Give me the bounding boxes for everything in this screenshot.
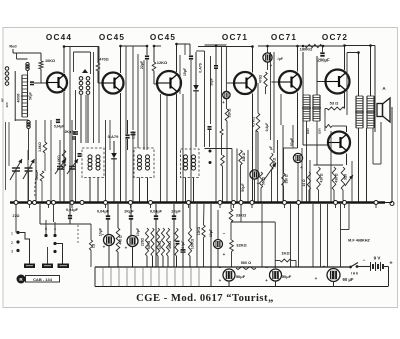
svg-text:0.A79: 0.A79 (199, 63, 203, 73)
capacitor 10μF elco a (104, 235, 115, 246)
wire v75 low2 (75, 136, 77, 202)
IF transformer can 2 (134, 148, 154, 178)
wire v60 top (59, 140, 61, 166)
svg-text:2KμF: 2KμF (171, 210, 181, 214)
svg-text:+: + (219, 278, 222, 283)
wire drop jog (40, 223, 91, 225)
resistor 1,8KΩ (43, 142, 47, 153)
resistor KR det (221, 155, 225, 166)
svg-text:470Ω: 470Ω (99, 58, 108, 62)
wire lower drop 9 (174, 267, 176, 287)
wire 1K left (275, 260, 280, 262)
battery 9V (364, 262, 389, 271)
svg-text:+: + (125, 246, 128, 251)
wire v73 loop (73, 52, 75, 72)
wire diode2 top (113, 141, 115, 153)
svg-text:0,4μF: 0,4μF (265, 123, 269, 132)
wire v227 low (226, 121, 228, 202)
wire h 222 (231, 221, 275, 223)
wire feedback right (322, 45, 345, 47)
wire v167 low (166, 94, 168, 202)
IF1 can coil b (96, 155, 100, 170)
wire Q3 emitter down (176, 94, 178, 202)
wire v127 top (127, 120, 129, 134)
transistor Q2 OC45 (102, 73, 124, 94)
wire v375 down (374, 46, 376, 133)
output transformer T3 secondary (366, 96, 375, 128)
wire v105 low (105, 120, 107, 202)
wire r col down4 (162, 256, 164, 267)
wire Q1 collector up (63, 47, 65, 74)
wire v241 low (240, 204, 242, 222)
svg-text:180KΩ: 180KΩ (300, 47, 314, 52)
transistor Q4 OC71 (233, 72, 256, 94)
IF2 can coil a (138, 155, 142, 170)
wire feedback left (258, 45, 305, 47)
wire Q7 emitter down (346, 154, 348, 166)
wire base Q2 (98, 82, 102, 84)
svg-text:1,8KΩ: 1,8KΩ (38, 142, 42, 152)
wire 33K to 32K (230, 222, 232, 240)
svg-text:0.A79: 0.A79 (108, 134, 119, 139)
svg-text:+: + (103, 245, 106, 250)
resistor 82KΩ b (239, 150, 242, 165)
oscillator feedback coil (27, 120, 30, 128)
coupling arrow to IF1 (82, 69, 88, 73)
wire v218 low (217, 249, 219, 268)
capacitor 10μF mid (214, 240, 223, 249)
capacitor cap stage2 (131, 132, 136, 134)
IF1 secondary winding (86, 77, 90, 95)
svg-text:M.F 468KHZ: M.F 468KHZ (348, 239, 370, 243)
terminal dots group 2 (44, 226, 56, 253)
wire C1b down (28, 171, 30, 202)
wire diode bottom (195, 91, 197, 147)
wire v221 top (221, 46, 223, 129)
wire v60 low (59, 169, 61, 202)
svg-text:3Ω0: 3Ω0 (344, 174, 348, 180)
wire Q3 collector up (176, 44, 178, 72)
terminal dot b (209, 161, 212, 164)
wire filler 8 (184, 44, 186, 55)
wire v147 top (146, 46, 148, 55)
wire v267 low (267, 63, 269, 71)
svg-text:4,7KΩ: 4,7KΩ (252, 117, 256, 127)
wire T2 out b (306, 121, 308, 202)
wire cap d up (173, 204, 175, 216)
wire v99 (98, 47, 100, 144)
svg-text:Ω30: Ω30 (306, 128, 310, 134)
wire 10K bottom (40, 69, 42, 83)
wire filler 14 (309, 160, 311, 202)
wire Q2 collector up (120, 46, 122, 73)
capacitor 2KμF d (171, 215, 178, 219)
wire v72 top (71, 120, 73, 166)
wire v296 low (295, 261, 297, 268)
wire filler 17 (351, 161, 353, 202)
svg-text:560Ω: 560Ω (262, 177, 266, 186)
resistor 180KΩ feedback (305, 44, 322, 47)
resistor 3Ω0 bias (341, 167, 345, 190)
wire filler 16 (330, 131, 332, 202)
wire left pair a (5, 122, 7, 166)
wire v197 low (196, 204, 198, 267)
bus junction nodes (14, 201, 378, 205)
wire h 165 (314, 164, 344, 166)
wire T2 left top (302, 52, 304, 95)
resistor 10KΩ (39, 61, 43, 69)
wire 440 down (117, 252, 119, 267)
svg-text:14 Ω: 14 Ω (302, 179, 306, 187)
svg-text:15μF: 15μF (183, 68, 187, 76)
variable capacitor C1b arrow (23, 159, 35, 179)
wire v209 low (209, 130, 211, 147)
diode detector (111, 153, 117, 159)
capacitor 90μF out c (327, 269, 340, 282)
output transformer T3 primary (355, 96, 364, 128)
resistor 1KΩ det (220, 129, 223, 135)
svg-text:OC71: OC71 (222, 33, 248, 42)
wire filler 0 (50, 120, 52, 202)
resistor 504Ω (175, 228, 178, 256)
wire rail q6 (345, 45, 376, 47)
gang dashed link 2 (77, 225, 79, 243)
bus stubs (16, 204, 376, 208)
variable capacitor C1a arrow (10, 159, 22, 180)
trimmer cap 2 (69, 167, 75, 170)
wire drop jog down (90, 224, 92, 240)
wire Q2 emitter down (120, 93, 122, 202)
wire v277 low (277, 140, 279, 202)
wire v183 (182, 204, 184, 250)
resistor 11KΩ q7 (325, 125, 332, 128)
wire rail C drop mid (228, 281, 230, 287)
wire elco a down (108, 245, 110, 267)
wire 1K right (292, 260, 297, 262)
svg-text:460Ω: 460Ω (168, 241, 172, 249)
wire base Q7 long (303, 144, 328, 146)
wire v45 top (44, 120, 46, 142)
wire v160 low (160, 94, 162, 202)
svg-text:Red: Red (9, 45, 17, 49)
capacitor trim 74 (72, 137, 76, 139)
svg-text:32KΩ: 32KΩ (236, 243, 247, 248)
wire Q6 emitter down (344, 92, 346, 109)
wire v42 low (41, 181, 43, 202)
wire v210 (210, 56, 212, 124)
wire v323 top (322, 46, 324, 52)
IF1 primary winding (79, 77, 83, 95)
svg-text:3K: 3K (72, 131, 77, 135)
svg-text:+: + (389, 261, 392, 267)
wire v126 (125, 46, 127, 202)
wire v381 (380, 122, 382, 164)
wire v75 low (75, 90, 77, 130)
capacitor 50μF out b (270, 269, 282, 281)
wire v88 mid (87, 95, 89, 143)
resistor 470Ω (96, 63, 100, 71)
IF1 can coil a (88, 155, 92, 170)
wire can3 b down (193, 178, 195, 203)
oscillator coil ladder (21, 75, 29, 117)
wire T3 out b (366, 128, 368, 202)
wire cap d down (173, 219, 175, 267)
svg-text:10μF: 10μF (209, 229, 213, 237)
wire term drop 16 (15, 204, 17, 233)
gang dashed link (35, 170, 37, 198)
capacitor 0,04μF a (105, 215, 112, 219)
transistor Q7 OC72 (327, 132, 350, 154)
wire T3 out a (358, 128, 360, 202)
wire v275 midlow (274, 222, 276, 268)
wire top rail stage4 (198, 46, 253, 48)
capacitor 5μF bypass (263, 53, 272, 62)
wire spk return jog (373, 163, 381, 165)
wire q7 coll jog (332, 125, 347, 127)
resistor 560Ω (236, 267, 256, 270)
IF transformer can 1 (82, 148, 104, 178)
wire 53 left (325, 108, 327, 110)
wire r col down3 (157, 256, 159, 267)
transistor Q1 OC44 (46, 73, 67, 93)
wire Q1 emitter down (63, 92, 65, 202)
wire 440 up (117, 204, 119, 228)
resistor 460Ω (166, 228, 169, 256)
svg-text:41KΩ: 41KΩ (158, 240, 162, 249)
wire lower drop 4 (134, 267, 136, 287)
svg-text:1KΩ: 1KΩ (281, 251, 290, 256)
capacitor 50μF coupling a (250, 170, 259, 179)
resistor 430Ω bias (332, 167, 336, 190)
wire T3 out c (372, 128, 374, 164)
wire filler 5 (109, 120, 111, 150)
wire v256 low2 (254, 179, 256, 202)
trimmer arrow 2 (67, 159, 78, 174)
speaker LS1 (377, 98, 390, 122)
svg-text:16μF: 16μF (132, 131, 136, 139)
resistor 1Ω jog (89, 240, 92, 250)
resistor 12KΩ (152, 62, 156, 71)
wire base Q6 (317, 81, 325, 83)
svg-text:√μF: √μF (277, 57, 283, 61)
svg-text:Ω30: Ω30 (318, 128, 322, 134)
wire rail AGC left (196, 50, 205, 52)
svg-text:560 Ω: 560 Ω (241, 261, 251, 265)
wire lower drop 2 (118, 267, 120, 287)
wire Q5 collector up (297, 46, 299, 72)
capacitor 50μF out a (223, 269, 235, 281)
wire v274 top (273, 52, 275, 153)
wire lower drop 7 (158, 267, 160, 287)
wire T2 out c (316, 121, 318, 165)
variable capacitor C1b (25, 168, 33, 171)
power switch S1 (349, 263, 364, 269)
trimmer cap 1 (57, 167, 63, 170)
wire v127 low (127, 139, 129, 150)
wire v309 low (308, 190, 310, 202)
wire v290 low (290, 204, 292, 267)
wire cap f up (69, 204, 71, 215)
wire cap b down (130, 219, 132, 236)
svg-text:9 V: 9 V (374, 256, 381, 261)
wire can2 b down (147, 178, 149, 203)
wire lower drop 5 (142, 267, 144, 287)
wire left drop 1 (35, 120, 37, 202)
wire rail2 q6 (347, 52, 359, 54)
svg-text:330 Ω: 330 Ω (285, 174, 289, 183)
wire rail stage3 left (154, 45, 161, 47)
diode OA79 (193, 85, 199, 91)
wire can3 a down (185, 178, 187, 203)
wire lower drop 11 (190, 267, 192, 287)
resistor 490Ω (40, 171, 44, 181)
capacitor C 216 (213, 65, 220, 69)
svg-text:CAB - 134: CAB - 134 (33, 277, 53, 282)
svg-text:10μF: 10μF (136, 227, 140, 236)
wire v133 low (132, 137, 134, 202)
svg-text:12KΩ: 12KΩ (157, 60, 168, 65)
wire lower drop 8 (166, 267, 168, 287)
wire v147 (146, 60, 148, 150)
main bus thin end (385, 202, 392, 204)
wire rail C left drop (94, 267, 96, 287)
wire v267 top (267, 46, 269, 53)
lower rail B (95, 266, 349, 268)
connector box 2 (42, 264, 53, 269)
wire filler 3 (85, 95, 87, 143)
capacitor osc to base (29, 81, 36, 85)
wire rail AGC (205, 44, 227, 46)
wire lower drop 12 (198, 267, 200, 287)
wire filler 9 (247, 150, 249, 202)
capacitor 0,04μF c (153, 215, 160, 219)
potentiometer wiper arrow (264, 163, 276, 180)
wire coil to ladder (27, 70, 29, 75)
wire Q4 collector up (252, 47, 254, 73)
wire tank drop (40, 53, 42, 61)
capacitor 15μF (188, 55, 195, 59)
wire r col down5 (167, 256, 169, 267)
svg-text:220: 220 (5, 102, 9, 107)
wire v183 mid (182, 94, 184, 202)
wire cap a down (107, 219, 109, 235)
wire cap c down (155, 219, 157, 267)
wire antenna down (12, 49, 14, 53)
oscillator pickup coil (26, 62, 29, 70)
capacitor 5μF AGC (223, 91, 230, 98)
capacitor 0,04μF f (67, 215, 74, 219)
wire T2 right top (316, 56, 318, 95)
svg-text:50KΩ: 50KΩ (147, 240, 151, 249)
wire base Q4 (227, 82, 234, 84)
wire v70 drop (69, 47, 71, 203)
det can coil b (192, 155, 196, 170)
wire lower drop 6 (150, 267, 152, 287)
wire filler 4 (93, 52, 95, 143)
transistor Q3 OC45 (156, 71, 181, 95)
wire v340 low (340, 204, 342, 267)
wire 100K up (189, 204, 191, 228)
wire v298 low (297, 163, 299, 203)
wire filler 1 (35, 120, 37, 202)
wire speaker right down (391, 107, 393, 201)
wire 47K down (257, 132, 259, 202)
wire v222 low (222, 166, 224, 202)
resistor 100KΩ (188, 228, 191, 256)
svg-text:OC71: OC71 (271, 33, 297, 42)
capacitor 10μF elco b (127, 236, 138, 247)
resistor emitter Q1 (62, 150, 66, 170)
resistor 4,1KΩ (156, 228, 159, 256)
wire base Q5 (272, 81, 279, 83)
wire v347 low (346, 53, 348, 116)
IF2 can coil b (146, 155, 150, 170)
wire v262 low (261, 204, 263, 267)
wire top rail stage3 (177, 43, 191, 45)
wire can2 a down (139, 178, 141, 203)
svg-text:100KΩ: 100KΩ (191, 238, 195, 249)
svg-text:50μF: 50μF (210, 78, 214, 86)
svg-text:10KΩ: 10KΩ (45, 59, 55, 63)
wire h q5 em (284, 147, 298, 149)
capacitor 2KμF b (128, 215, 135, 219)
det can coil a (184, 155, 188, 170)
wire diode top (195, 52, 197, 85)
wire v81 mid (80, 95, 82, 143)
resistor 14Ω (307, 172, 310, 190)
wire top rail stage2 (121, 45, 148, 47)
resistor 410Ω bias (317, 167, 321, 190)
wire v313 low (312, 204, 314, 267)
wire cap c up (155, 204, 157, 216)
wire filler 12 (292, 125, 294, 148)
svg-text:I A 6: I A 6 (351, 272, 358, 276)
svg-text:50μF: 50μF (241, 183, 245, 192)
thermistor arrow (345, 175, 353, 186)
svg-text:50μF: 50μF (282, 274, 292, 279)
wire v320 low (320, 204, 322, 267)
capacitor 5KμF (73, 132, 78, 134)
wire 470 top (97, 47, 99, 64)
wire v190 down (189, 44, 191, 55)
svg-text:40000: 40000 (17, 93, 21, 102)
svg-text:226Ω: 226Ω (141, 238, 145, 247)
resistor 10KΩ low (202, 225, 205, 238)
wire v349 hook (348, 204, 350, 230)
svg-text:−: − (219, 265, 222, 270)
wire v334 low (333, 190, 335, 202)
wire term2 hook (55, 244, 63, 264)
resistor 4,7KΩ (256, 113, 260, 132)
wire r col down2 (152, 256, 154, 267)
svg-text:10KΩ: 10KΩ (197, 226, 201, 235)
wire 47K top (257, 83, 259, 113)
svg-text:470Ω: 470Ω (259, 75, 263, 84)
wire v183b (182, 253, 184, 268)
trimmer arrow 1 (55, 159, 66, 174)
wire C1a down (15, 171, 17, 202)
svg-text:−: − (102, 232, 105, 237)
svg-text:OC44: OC44 (46, 33, 72, 42)
wire 53 left down (324, 109, 326, 116)
wire term drop 55 (53, 204, 55, 222)
rail junction dots (63, 43, 372, 54)
detector can 3 (181, 149, 200, 178)
wire left osc vertical (14, 71, 16, 121)
wire filler 7 (179, 55, 181, 94)
wire v318 low (318, 190, 320, 202)
wire can1 out a (89, 178, 91, 203)
